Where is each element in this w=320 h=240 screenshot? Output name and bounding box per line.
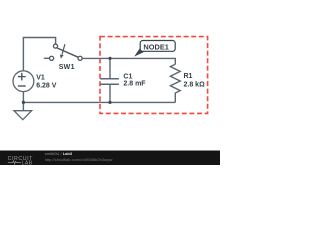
- svg-text:smith0U / Lab3: smith0U / Lab3: [45, 151, 73, 156]
- svg-text:C1: C1: [123, 73, 132, 80]
- svg-text:LAB: LAB: [22, 160, 33, 165]
- svg-text:V1: V1: [36, 75, 45, 82]
- svg-text:SW1: SW1: [59, 64, 75, 71]
- svg-text:2.8 mF: 2.8 mF: [123, 80, 146, 87]
- svg-text:6.28 V: 6.28 V: [36, 83, 57, 90]
- svg-text:NODE1: NODE1: [143, 42, 168, 51]
- svg-text:2.8 kΩ: 2.8 kΩ: [184, 82, 206, 89]
- svg-text:R1: R1: [184, 73, 193, 80]
- svg-text:http://circuitlab.com/c/w5538b: http://circuitlab.com/c/w5538b2b3aqw/: [45, 157, 114, 162]
